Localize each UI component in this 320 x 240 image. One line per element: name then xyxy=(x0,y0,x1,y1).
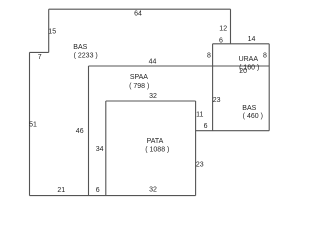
svg-text:23: 23 xyxy=(213,97,221,104)
svg-text:PATA: PATA xyxy=(147,138,164,145)
wire: step wall (7) xyxy=(30,51,49,53)
wire: step top wall (15) xyxy=(48,9,50,52)
svg-text:8: 8 xyxy=(263,53,267,60)
svg-text:8: 8 xyxy=(207,53,211,60)
wire: BAS top wall (64) xyxy=(49,8,231,10)
svg-text:( 460 ): ( 460 ) xyxy=(243,113,263,120)
svg-text:15: 15 xyxy=(48,29,56,36)
svg-text:32: 32 xyxy=(149,93,157,100)
wire: SPAA top + URAA bottom wall (44+20) xyxy=(89,65,270,67)
wire: PATA right wall (11+23) xyxy=(195,101,197,196)
wire: bottom wall (21+6+32) xyxy=(30,195,196,197)
svg-text:6: 6 xyxy=(96,187,100,194)
wire: PATA left wall (34) xyxy=(105,101,107,196)
svg-text:BAS: BAS xyxy=(242,105,256,112)
wire: SPAA left wall (46) xyxy=(88,66,90,196)
svg-text:SPAA: SPAA xyxy=(130,74,148,81)
svg-text:32: 32 xyxy=(149,186,157,193)
svg-text:( 798 ): ( 798 ) xyxy=(129,83,149,90)
svg-text:23: 23 xyxy=(196,161,204,168)
wire: upper-right wall (12) xyxy=(230,9,232,44)
svg-text:BAS: BAS xyxy=(73,44,87,51)
wire: URAA top wall (6+14) xyxy=(213,43,270,45)
svg-text:64: 64 xyxy=(134,10,142,17)
svg-text:( 1088 ): ( 1088 ) xyxy=(145,147,169,154)
svg-text:21: 21 xyxy=(57,187,65,194)
svg-text:( 2233 ): ( 2233 ) xyxy=(74,52,98,59)
svg-text:11: 11 xyxy=(196,112,203,119)
svg-text:44: 44 xyxy=(149,59,157,66)
svg-text:14: 14 xyxy=(248,36,256,43)
svg-text:URAA: URAA xyxy=(239,56,259,63)
svg-text:12: 12 xyxy=(219,26,227,33)
svg-text:6: 6 xyxy=(204,123,208,130)
wire: URAA right wall (8) + BAS460 right wall xyxy=(268,44,270,131)
svg-text:46: 46 xyxy=(76,128,84,135)
svg-text:6: 6 xyxy=(219,37,223,44)
svg-text:7: 7 xyxy=(38,54,42,61)
svg-text:20: 20 xyxy=(239,68,247,75)
wire: URAA left wall (8) + BAS460 left wall (23) xyxy=(212,44,214,131)
svg-text:34: 34 xyxy=(96,146,104,153)
wire: PATA top wall (32) xyxy=(106,100,196,102)
svg-text:51: 51 xyxy=(29,122,37,129)
wire: BAS460 bottom wall xyxy=(196,130,270,132)
wire: BAS left wall (51) xyxy=(29,52,31,195)
